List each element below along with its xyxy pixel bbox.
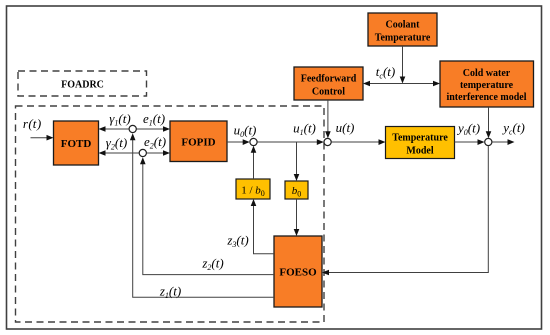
svg-text:z1(t): z1(t) — [159, 284, 181, 301]
wire e2 junction to FOPID — [147, 150, 170, 156]
svg-text:y0(t): y0(t) — [456, 121, 480, 138]
svg-text:r(t): r(t) — [23, 116, 41, 131]
svg-text:γ1(t): γ1(t) — [109, 111, 130, 128]
block FOPID — [170, 121, 227, 162]
wire r(t) input — [31, 135, 54, 141]
FOADRC dashed boundary — [16, 106, 325, 322]
svg-text:e1(t): e1(t) — [143, 111, 165, 128]
wire feedback from C5 down to FOESO — [322, 146, 488, 275]
svg-text:FOTD: FOTD — [61, 138, 92, 150]
wire Coolant Temperature down to tc node — [400, 46, 406, 84]
svg-text:Cold water: Cold water — [463, 68, 511, 79]
svg-text:Temperature: Temperature — [392, 133, 448, 144]
svg-text:u1(t): u1(t) — [293, 121, 316, 138]
svg-text:interference model: interference model — [446, 92, 526, 103]
block Cold water temperature interference model — [440, 61, 534, 107]
wire C5 output yc — [492, 139, 514, 145]
svg-text:z3(t): z3(t) — [226, 233, 248, 250]
node C5 sum yc — [485, 138, 492, 145]
svg-text:z2(t): z2(t) — [201, 256, 223, 273]
svg-text:γ2(t): γ2(t) — [106, 135, 127, 152]
svg-text:temperature: temperature — [460, 80, 514, 91]
wire FOTD to e1 junction (gamma1) — [99, 126, 130, 132]
wire z2 from FOESO to C2 — [140, 157, 274, 274]
block b0 — [285, 181, 308, 199]
wire branch u1 down to b0 — [294, 142, 300, 181]
svg-text:Control: Control — [312, 87, 345, 98]
svg-text:Model: Model — [406, 146, 433, 157]
node C1 sum e1 — [129, 125, 136, 132]
wire 1/b0 up to C3 — [251, 146, 257, 179]
svg-text:Temperature: Temperature — [375, 33, 431, 44]
wire C3 to C4 (u1) — [257, 139, 324, 145]
wire Cold water model down to C5 — [486, 107, 492, 138]
svg-text:Coolant: Coolant — [386, 20, 421, 31]
wire Feedforward Control down to C4 — [325, 100, 331, 138]
block Coolant Temperature — [368, 13, 437, 46]
node C4 sum u — [324, 138, 331, 145]
svg-text:Feedforward: Feedforward — [301, 74, 357, 85]
wire z1 from FOESO to C1 — [130, 133, 274, 297]
block 1/b0 — [236, 179, 270, 199]
wire b0 down to FOESO — [294, 199, 300, 236]
wire tc horizontal to Feedforward and Cold water — [363, 81, 440, 87]
block Feedforward Control — [294, 67, 363, 100]
svg-text:yc(t): yc(t) — [501, 120, 525, 137]
svg-text:FOESO: FOESO — [279, 267, 317, 279]
node C2 sum e2 — [139, 149, 146, 156]
wire FOPID output u0 to sum C3 — [227, 139, 250, 145]
wire e1 junction to FOPID — [137, 126, 171, 132]
svg-text:u0(t): u0(t) — [234, 123, 257, 140]
svg-text:tc(t): tc(t) — [376, 64, 395, 81]
svg-text:FOADRC: FOADRC — [61, 80, 104, 91]
block FOESO — [274, 236, 322, 307]
svg-text:e2(t): e2(t) — [144, 134, 166, 151]
wire C4 to Temperature Model (u) — [331, 139, 385, 145]
svg-text:u(t): u(t) — [336, 120, 355, 135]
FOADRC label box — [18, 71, 147, 96]
wire z3 from FOESO to 1/b0 — [251, 199, 274, 254]
svg-text:FOPID: FOPID — [181, 137, 215, 149]
block Temperature Model — [386, 127, 455, 159]
node C3 sum u0 — [250, 138, 257, 145]
block FOTD — [54, 121, 99, 165]
wire Temperature Model to C5 (y0) — [455, 139, 485, 145]
wire FOTD to e2 junction (gamma2) — [99, 150, 140, 156]
